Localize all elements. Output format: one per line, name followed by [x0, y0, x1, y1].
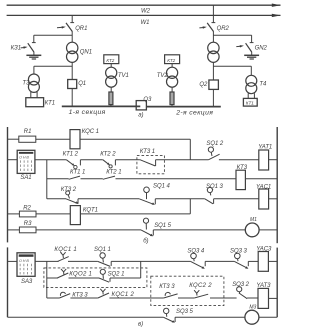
svg-text:КТ3 3: КТ3 3 [159, 284, 175, 290]
svg-text:SQ1 2: SQ1 2 [206, 141, 223, 147]
contact КQО2.1 [57, 269, 92, 278]
switch SA3 [17, 253, 35, 285]
transformer QN2 [208, 42, 219, 62]
wire [214, 198, 259, 200]
contact SQ1.5 [141, 218, 172, 236]
dashed box КТ3 1 [137, 149, 165, 174]
svg-text:Т3: Т3 [22, 81, 30, 87]
svg-text:КQО2 1: КQО2 1 [69, 271, 92, 277]
section switch Q3 [136, 97, 152, 118]
wire [247, 297, 258, 299]
svg-text:SQ3 4: SQ3 4 [187, 248, 204, 254]
bus W2 [7, 4, 281, 15]
coil YAC3 [256, 247, 272, 272]
svg-text:КЗ1: КЗ1 [11, 46, 21, 52]
contact SQ2.1 [99, 269, 124, 282]
voltage transformer TV2 [157, 67, 178, 87]
wire: QN1 down to Q1, junction to T3 branch [71, 62, 73, 79]
wire [36, 213, 70, 215]
svg-text:КТ1 1: КТ1 1 [70, 170, 85, 176]
coil YAC1 [256, 185, 271, 209]
wire: Q2 down to section bus 2 [212, 89, 214, 106]
svg-text:КТ1: КТ1 [246, 101, 254, 106]
resistor R3 [19, 221, 36, 233]
svg-text:Q3: Q3 [143, 97, 152, 103]
motor М3 [245, 305, 259, 325]
wire [81, 178, 103, 180]
wire [116, 178, 237, 180]
svg-text:Q1: Q1 [78, 81, 86, 87]
wire [36, 229, 141, 231]
transformer QN1 [67, 42, 92, 62]
wire: Q1 down to section bus 1 [71, 89, 73, 107]
wire [156, 159, 209, 161]
contact SQ3.4 [187, 248, 205, 268]
svg-text:SA1: SA1 [20, 175, 31, 181]
voltage transformer TV1 [106, 67, 129, 87]
wire [248, 260, 258, 262]
wire: QN2 down to Q2, junction to T4 branch [212, 62, 214, 80]
wire [110, 105, 112, 107]
svg-text:КТ3: КТ3 [237, 165, 248, 171]
wire [80, 213, 190, 215]
svg-text:SQ3 3: SQ3 3 [230, 248, 247, 254]
wire [110, 64, 112, 68]
wire: rail to SA3 [8, 260, 18, 262]
neck T3 [31, 92, 37, 98]
wire: riser rung1 to rung2 [189, 139, 191, 160]
svg-text:КТ2 2: КТ2 2 [100, 152, 116, 158]
left rail (в) [7, 247, 9, 317]
wire [110, 87, 112, 92]
wire [175, 316, 245, 318]
coil YAT1 [258, 144, 272, 170]
wire: branch down to T4 [250, 66, 252, 75]
wire [80, 159, 102, 161]
wire [155, 198, 205, 200]
wire [111, 260, 190, 262]
svg-text:SQ1 5: SQ1 5 [154, 223, 171, 229]
wire [109, 297, 163, 299]
dashed box КТ3/КQС2 [151, 276, 224, 305]
wire: rail to SA1 [8, 159, 18, 161]
wire [171, 105, 173, 107]
wire: riser в2 up to в1 [140, 261, 142, 278]
wire [110, 277, 141, 279]
svg-text:КТ2 1: КТ2 1 [106, 170, 121, 176]
rung в3 wire [47, 297, 60, 299]
wire [259, 316, 277, 318]
contact SQ1.3 [205, 184, 224, 204]
svg-text:QN1: QN1 [80, 50, 92, 56]
disconnector QR2 [199, 23, 229, 32]
svg-text:КТ3 1: КТ3 1 [140, 149, 155, 155]
svg-text:SQ1 4: SQ1 4 [153, 184, 170, 190]
transformer T3 [22, 74, 39, 92]
relay coil КQТ1 [70, 206, 98, 225]
svg-text:ОНВ: ОНВ [19, 259, 30, 263]
wire [269, 297, 278, 299]
right rail (б) [276, 127, 278, 243]
svg-text:SQ1 1: SQ1 1 [94, 247, 111, 253]
rung 3 wire [47, 198, 66, 200]
wire [205, 260, 234, 262]
svg-text:КТ2: КТ2 [167, 58, 175, 63]
svg-text:Q2: Q2 [199, 82, 208, 88]
rung 1: wire [8, 138, 19, 140]
contact SQ3.2 [232, 282, 249, 299]
time relay coil КТ3 [236, 165, 248, 190]
rung М3 wire [8, 316, 164, 318]
svg-text:QR2: QR2 [217, 26, 230, 32]
wire [36, 138, 70, 140]
svg-text:R1: R1 [24, 129, 32, 135]
wire [219, 159, 259, 161]
ground (КЗ1) [26, 52, 41, 59]
relay coil КQС1 [70, 129, 99, 149]
svg-text:GN2: GN2 [255, 45, 268, 51]
svg-text:YAC3: YAC3 [256, 247, 272, 253]
short-circuiting switch КЗ1 [11, 35, 36, 52]
wire [269, 159, 278, 161]
wire: SA3 to КQС1.1 [35, 260, 59, 262]
wire: rung1 to riser [80, 138, 190, 140]
contact КТ3.3 (left) [59, 292, 88, 298]
svg-text:ОНВ: ОНВ [19, 156, 30, 160]
svg-text:SQ3 5: SQ3 5 [176, 309, 193, 315]
svg-text:КТ3 2: КТ3 2 [61, 187, 77, 193]
rung 2b wire [47, 178, 69, 180]
contact КQС1.1 [54, 247, 77, 262]
dashed box КQО2/SQ2 [44, 268, 147, 288]
svg-text:TV2: TV2 [157, 73, 169, 79]
wire [68, 260, 98, 262]
svg-text:R2: R2 [23, 206, 31, 212]
wire: QR2 down, junction to GN2 branch [212, 31, 214, 42]
contact КQС2.2 [189, 283, 212, 298]
svg-text:КQТ1: КQТ1 [83, 207, 98, 213]
wire [268, 260, 277, 262]
svg-text:М3: М3 [249, 305, 256, 311]
contact SQ3.3 [230, 248, 248, 268]
svg-text:М1: М1 [250, 217, 257, 223]
contact КQС1.2 [98, 289, 135, 298]
wire: riser rung3 to rung R2 [189, 199, 191, 214]
svg-text:1-я секция: 1-я секция [69, 109, 106, 116]
svg-text:SQ2 1: SQ2 1 [108, 271, 125, 277]
svg-text:YAT3: YAT3 [256, 283, 271, 289]
ground (GN2) [244, 52, 259, 59]
resistor R2 [19, 206, 36, 217]
wire [171, 64, 173, 68]
contact SQ1.1 [94, 247, 111, 267]
wire: W1 tap down to QR1 [71, 15, 73, 22]
wire [70, 297, 98, 299]
motor М1 [245, 217, 259, 237]
contact КТ3.1 [140, 160, 156, 166]
wire [210, 297, 237, 299]
svg-text:TV1: TV1 [118, 73, 129, 79]
svg-text:YAT1: YAT1 [258, 144, 272, 150]
relay box КТ2 (right) [165, 55, 180, 64]
contact SQ1.2 [206, 141, 223, 160]
breaker Q1 [68, 80, 86, 89]
svg-text:R3: R3 [24, 221, 32, 227]
svg-text:SQ3 2: SQ3 2 [232, 282, 249, 288]
wire [269, 198, 278, 200]
svg-text:КТ1: КТ1 [45, 100, 55, 106]
wire [115, 159, 139, 161]
wire: W2 tap down to QR2 (crosses W1) [212, 5, 214, 22]
contact КТ2.2 [100, 152, 116, 168]
svg-text:SA3: SA3 [21, 279, 33, 285]
svg-text:КТ1 2: КТ1 2 [63, 152, 79, 158]
relay box КТ2 (left) [104, 55, 119, 64]
svg-text:КQС2 2: КQС2 2 [189, 283, 212, 289]
wire: riser from SA1 branch [46, 160, 48, 199]
heater box КТ1 (left) [26, 98, 55, 107]
contact КТ1.1 [69, 170, 86, 180]
contact КТ3.3 (right) [159, 284, 177, 298]
svg-text:QR1: QR1 [75, 26, 87, 32]
switch SA1 [17, 150, 35, 181]
wire [245, 178, 277, 180]
wire: QR1 down, junction to KZ1 branch [71, 31, 73, 42]
wire: branch down to T3 [33, 66, 35, 74]
svg-text:КQС1 1: КQС1 1 [54, 247, 77, 253]
fuse FU2 [170, 92, 174, 105]
bus W1 [7, 14, 281, 26]
contact SQ1.4 [139, 184, 170, 205]
svg-text:б): б) [143, 239, 148, 245]
contact SQ3.5 [163, 308, 193, 322]
svg-text:КQС1 2: КQС1 2 [112, 292, 135, 298]
disconnector QR1 [57, 23, 87, 32]
svg-text:в): в) [138, 321, 143, 327]
svg-text:КQС 1: КQС 1 [82, 129, 99, 135]
rung R3 wire [8, 229, 20, 231]
svg-text:W1: W1 [141, 20, 150, 26]
wire [78, 198, 139, 200]
bus section 1 [62, 106, 141, 116]
svg-text:2-я секция: 2-я секция [175, 110, 213, 117]
contact КТ3.2 [61, 187, 79, 204]
heater box КТ1 (right) [243, 98, 257, 106]
left rail (б) [7, 127, 9, 242]
neck T4 [248, 93, 254, 98]
rung R2 wire [8, 213, 20, 215]
svg-text:а): а) [138, 113, 143, 119]
svg-text:YAC1: YAC1 [256, 185, 271, 191]
svg-text:W2: W2 [141, 8, 151, 14]
bus section 2 [146, 107, 220, 117]
transformer T4 [246, 75, 267, 93]
wire [259, 229, 277, 231]
right rail (в) [276, 248, 278, 318]
contact КТ1.2 [63, 152, 81, 169]
wire [171, 87, 173, 92]
wire [153, 229, 245, 231]
svg-text:SQ1 3: SQ1 3 [206, 184, 223, 190]
breaker Q2 [199, 80, 218, 89]
wire: riser from SA3 branch [46, 261, 48, 298]
grounding switch GN2 [236, 35, 267, 52]
wire [178, 297, 194, 299]
wire [69, 277, 100, 279]
coil YAT3 [256, 283, 271, 309]
wire: SA1 to КТ1.2 [35, 159, 66, 161]
contact КТ2.1 [103, 170, 122, 180]
rung в2 wire [47, 277, 58, 279]
svg-text:Т4: Т4 [259, 82, 267, 88]
fuse FU1 [109, 92, 113, 105]
svg-text:КТ2: КТ2 [106, 58, 114, 63]
resistor R1 [19, 129, 36, 142]
